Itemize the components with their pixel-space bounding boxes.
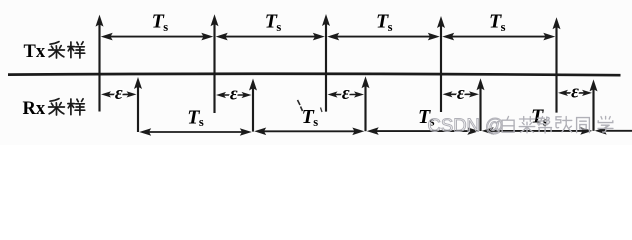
svg-text:ε: ε [230, 84, 238, 105]
dimension arrow Ts (Rx span 2) [254, 128, 364, 136]
wire: main time axis [8, 74, 621, 75]
node Tx sample tick 4 (up arrow) [437, 16, 445, 112]
dimension arrow Ts (Tx span 1) [101, 33, 214, 41]
svg-text:s: s [501, 20, 506, 34]
svg-text:Rx: Rx [23, 99, 46, 119]
watermark glyph zhang [556, 117, 572, 132]
dimension arrow epsilon (pair 4) [443, 91, 480, 97]
node Tx sample tick 5 (up arrow) [553, 17, 561, 112]
svg-text:s: s [313, 115, 318, 129]
watermark glyph bai [502, 117, 514, 133]
dimension arrow epsilon (pair 5) [558, 90, 592, 96]
svg-text:s: s [276, 20, 281, 34]
node Rx sample tick 2 (up arrow) [249, 79, 257, 132]
node Rx sample tick 3 (up arrow) [362, 76, 370, 131]
dimension arrow Ts (Tx span 3) [327, 33, 440, 41]
node Rx sample tick 1 (up arrow) [134, 77, 142, 132]
svg-text:s: s [163, 20, 168, 34]
node Rx sample tick 4 (up arrow) [477, 78, 485, 131]
svg-text:ε: ε [457, 83, 465, 104]
svg-text:ε: ε [115, 83, 123, 104]
label caiyang (Rx row) [49, 99, 65, 115]
dimension arrow Ts (Rx span 4) [482, 127, 593, 135]
svg-text:Tx: Tx [24, 42, 46, 62]
watermark glyph bang [538, 117, 552, 133]
node Tx sample tick 2 (up arrow) [211, 14, 219, 113]
dimension arrow epsilon (pair 3) [328, 91, 365, 97]
watermark glyph tong [577, 118, 590, 133]
svg-text:s: s [199, 115, 204, 129]
label caiyang (Tx row) [49, 42, 65, 58]
dimension arrow Ts (Tx span 4) [442, 33, 555, 41]
svg-text:CSDN @: CSDN @ [428, 115, 504, 136]
node Tx sample tick 3 (up arrow) [322, 14, 330, 112]
svg-text:s: s [388, 20, 393, 34]
dimension arrow Ts (Rx span 3) [367, 127, 480, 135]
dimension arrow Ts (Rx partial span, right edge) [595, 127, 632, 135]
svg-text:ε: ε [342, 83, 350, 104]
watermark glyph xue [598, 116, 613, 132]
artifact stray tick [321, 108, 323, 113]
svg-text:ε: ε [571, 82, 579, 103]
watermark glyph cai [519, 117, 534, 133]
dimension arrow Ts (Rx span 1) [139, 128, 252, 136]
dimension arrow Ts (Tx span 2) [216, 33, 325, 41]
node Rx sample tick 5 (up arrow) [590, 79, 598, 130]
dimension arrow epsilon (pair 1) [101, 91, 137, 97]
artifact stray mark [298, 100, 303, 111]
node Tx sample tick 1 (up arrow) [96, 15, 104, 112]
dimension arrow epsilon (pair 2) [216, 92, 252, 98]
